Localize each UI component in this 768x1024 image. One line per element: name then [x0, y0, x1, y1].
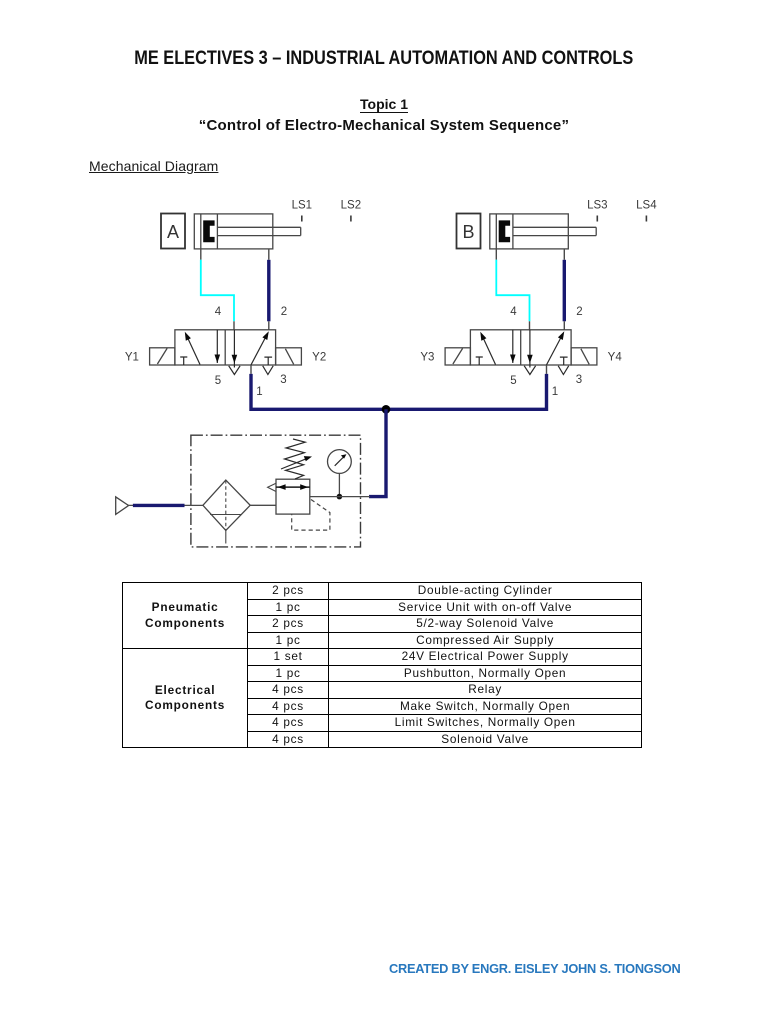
compressed air supply source triangle	[116, 497, 129, 515]
svg-text:1: 1	[552, 386, 558, 398]
valve A right cell blocked port T	[264, 357, 272, 365]
valve B right cell flow arrow (port 1 to 2)	[547, 331, 565, 365]
regulator left pointer	[268, 483, 276, 491]
wire blue cylinder B right port to valve B port 2	[563, 260, 566, 322]
filter diamond	[203, 480, 250, 530]
valve A exhaust V port 3	[263, 366, 274, 375]
svg-text:4: 4	[215, 306, 222, 318]
cylinder A port stubs	[201, 249, 269, 260]
topic heading	[0, 96, 768, 112]
svg-text:5: 5	[215, 375, 221, 387]
solenoid Y3 box	[445, 348, 470, 365]
title	[0, 47, 768, 70]
valve B left cell flow arrow	[480, 332, 495, 365]
valve B left cell blocked port T	[476, 357, 483, 365]
cylinder A piston rod	[217, 227, 300, 235]
valve A left cell flow arrow	[185, 332, 200, 365]
svg-text:LS1: LS1	[292, 200, 312, 212]
regulator double arrow	[276, 484, 310, 490]
svg-text:Y1: Y1	[125, 352, 139, 364]
svg-text:4: 4	[510, 306, 517, 318]
valve A right cell down arrow (port 4 to 5)	[232, 330, 238, 368]
valve B right cell blocked port T	[560, 357, 568, 365]
valve B body	[470, 330, 571, 365]
subtitle quote	[0, 117, 768, 134]
svg-text:LS3: LS3	[587, 200, 607, 212]
cylinder B piston seal (black bracket)	[499, 220, 510, 242]
limit switch LS2 tick	[350, 216, 352, 222]
solenoid Y2 box	[276, 348, 302, 365]
cylinder A body	[194, 214, 272, 249]
svg-text:LS4: LS4	[636, 200, 657, 212]
wire blue supply	[133, 504, 185, 507]
cylinder A piston seal (black bracket)	[203, 220, 214, 242]
gauge stem	[338, 474, 340, 497]
components table	[122, 582, 642, 748]
svg-text:3: 3	[576, 374, 582, 386]
svg-text:2: 2	[281, 306, 287, 318]
filter water line	[210, 514, 242, 516]
cylinder B port stubs	[496, 249, 564, 260]
wire blue valve B port 1 down	[386, 374, 547, 409]
valve B exhaust V port 3	[558, 366, 569, 375]
pipe filter to regulator	[250, 504, 276, 506]
valve B exhaust V port 5	[524, 366, 535, 375]
valve A port 1 stub	[250, 365, 252, 374]
filter center dashed line	[225, 480, 227, 530]
valve B port 1 stub	[546, 365, 548, 374]
wire blue cylinder A right port to valve A port 2	[267, 260, 270, 322]
valve B port labels	[420, 306, 622, 398]
svg-text:Y3: Y3	[420, 352, 434, 364]
solenoid Y4 box	[571, 348, 597, 365]
pipe regulator to outlet	[310, 496, 370, 498]
valve B left cell down arrow	[510, 330, 516, 363]
svg-text:5: 5	[510, 375, 516, 387]
wire cyan cylinder A left port to valve A port 4	[201, 260, 234, 322]
valve A left cell down arrow	[215, 330, 221, 363]
svg-text:A: A	[167, 222, 179, 242]
wire blue valve A port 1 down	[251, 374, 386, 409]
valve A exhaust V port 5	[229, 366, 240, 375]
limit switch LS1 tick	[301, 216, 303, 222]
svg-text:3: 3	[280, 374, 286, 386]
limit switch LS3 tick	[596, 216, 598, 222]
valve B top port stubs	[530, 321, 565, 330]
valve A body	[175, 330, 276, 365]
gauge junction dot	[337, 494, 343, 500]
solenoid Y1 box	[150, 348, 175, 365]
valve A left cell blocked port T	[180, 357, 187, 365]
valve A port labels	[125, 306, 326, 398]
section label	[89, 158, 218, 174]
junction node	[382, 405, 391, 414]
svg-text:LS2: LS2	[341, 200, 361, 212]
valve B right cell down arrow (port 4 to 5)	[527, 330, 533, 368]
svg-text:Y4: Y4	[608, 352, 623, 364]
service unit enclosure (dash-dot)	[191, 435, 361, 547]
supply line thin	[129, 504, 203, 506]
valve A right cell flow arrow (port 1 to 2)	[251, 331, 269, 365]
filter drain line	[225, 530, 227, 543]
regulator body	[276, 479, 310, 514]
cylinder A tag box	[161, 214, 185, 249]
svg-text:1: 1	[256, 386, 262, 398]
cylinder B tag box	[457, 214, 481, 249]
pressure gauge	[328, 450, 352, 474]
regulator spring	[285, 439, 306, 479]
regulator pilot dashed loop	[292, 500, 330, 531]
cylinder B piston rod	[513, 227, 596, 235]
valve A top port stubs	[234, 321, 269, 330]
gauge needle	[335, 454, 347, 466]
svg-text:2: 2	[576, 306, 582, 318]
wire cyan cylinder B left port to valve B port 4	[496, 260, 529, 322]
svg-text:B: B	[462, 222, 474, 242]
footer credit	[389, 961, 679, 976]
regulator adjustment arrow	[281, 456, 312, 469]
svg-text:Y2: Y2	[312, 352, 326, 364]
limit switch LS4 tick	[645, 216, 647, 222]
wire blue junction down to service unit	[369, 409, 386, 496]
cylinder B body	[490, 214, 569, 249]
